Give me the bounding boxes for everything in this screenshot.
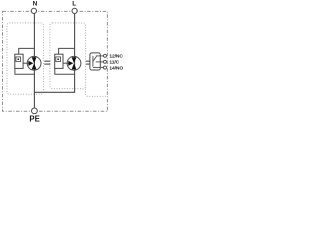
- FS changeover contact box: [90, 53, 100, 70]
- spark gap circle right: [67, 56, 81, 70]
- wire box to arrow: [23, 62, 29, 64]
- terminal PE: [32, 108, 38, 114]
- svg-text:12/NC: 12/NC: [109, 54, 123, 60]
- disconnector box right: [55, 54, 63, 68]
- spark gap bowtie left: [32, 57, 37, 69]
- mechanical link bars between modules: [44, 61, 50, 64]
- outer dash-dot device boundary: [3, 11, 108, 111]
- terminal N: [31, 8, 36, 13]
- right module: top branch wire: [59, 48, 75, 54]
- mechanical link bars to FS contact: [86, 61, 90, 64]
- spark gap bowtie right: [72, 57, 77, 69]
- terminal 12/NC circle: [104, 54, 107, 57]
- left module: top branch wire: [19, 48, 35, 54]
- right SPD module dotted enclosure: [50, 23, 86, 89]
- disconnector indicator square right: [56, 57, 61, 62]
- terminal 11/C circle: [104, 60, 107, 63]
- spark gap circle left: [27, 56, 41, 70]
- wire: bottom bus to PE: [34, 91, 75, 93]
- svg-text:PE: PE: [29, 115, 39, 124]
- right module: bottom branch wire: [55, 68, 75, 74]
- disconnector indicator square: [16, 57, 21, 62]
- svg-text:11/C: 11/C: [109, 59, 119, 65]
- svg-text:L: L: [72, 1, 76, 8]
- disconnector box left (thermal disconnect): [15, 54, 23, 68]
- contact internal + wire to 14/NO terminal: [93, 66, 104, 68]
- svg-text:N: N: [33, 1, 38, 8]
- left SPD module dotted enclosure: [7, 23, 43, 94]
- contact internal + wire to 12/NC terminal: [96, 55, 103, 57]
- contact internal + wire to 11/C terminal: [96, 61, 104, 63]
- left module: bottom branch wire: [15, 68, 35, 74]
- wire: N column: [33, 14, 35, 108]
- contact internal: common vertical: [92, 56, 94, 67]
- terminal 14/NO circle: [104, 66, 107, 69]
- FS contact dotted enclosure extension: [86, 89, 108, 97]
- actuating arrow left: [28, 61, 33, 66]
- svg-text:14/NO: 14/NO: [109, 65, 123, 71]
- wire box to arrow right: [63, 62, 69, 64]
- contact internal: lever diagonal: [93, 56, 97, 61]
- wire: L column: [74, 14, 76, 93]
- actuating arrow right: [68, 61, 73, 66]
- indicator dot: [17, 58, 19, 60]
- indicator dot right: [57, 58, 59, 60]
- terminal L: [72, 8, 77, 13]
